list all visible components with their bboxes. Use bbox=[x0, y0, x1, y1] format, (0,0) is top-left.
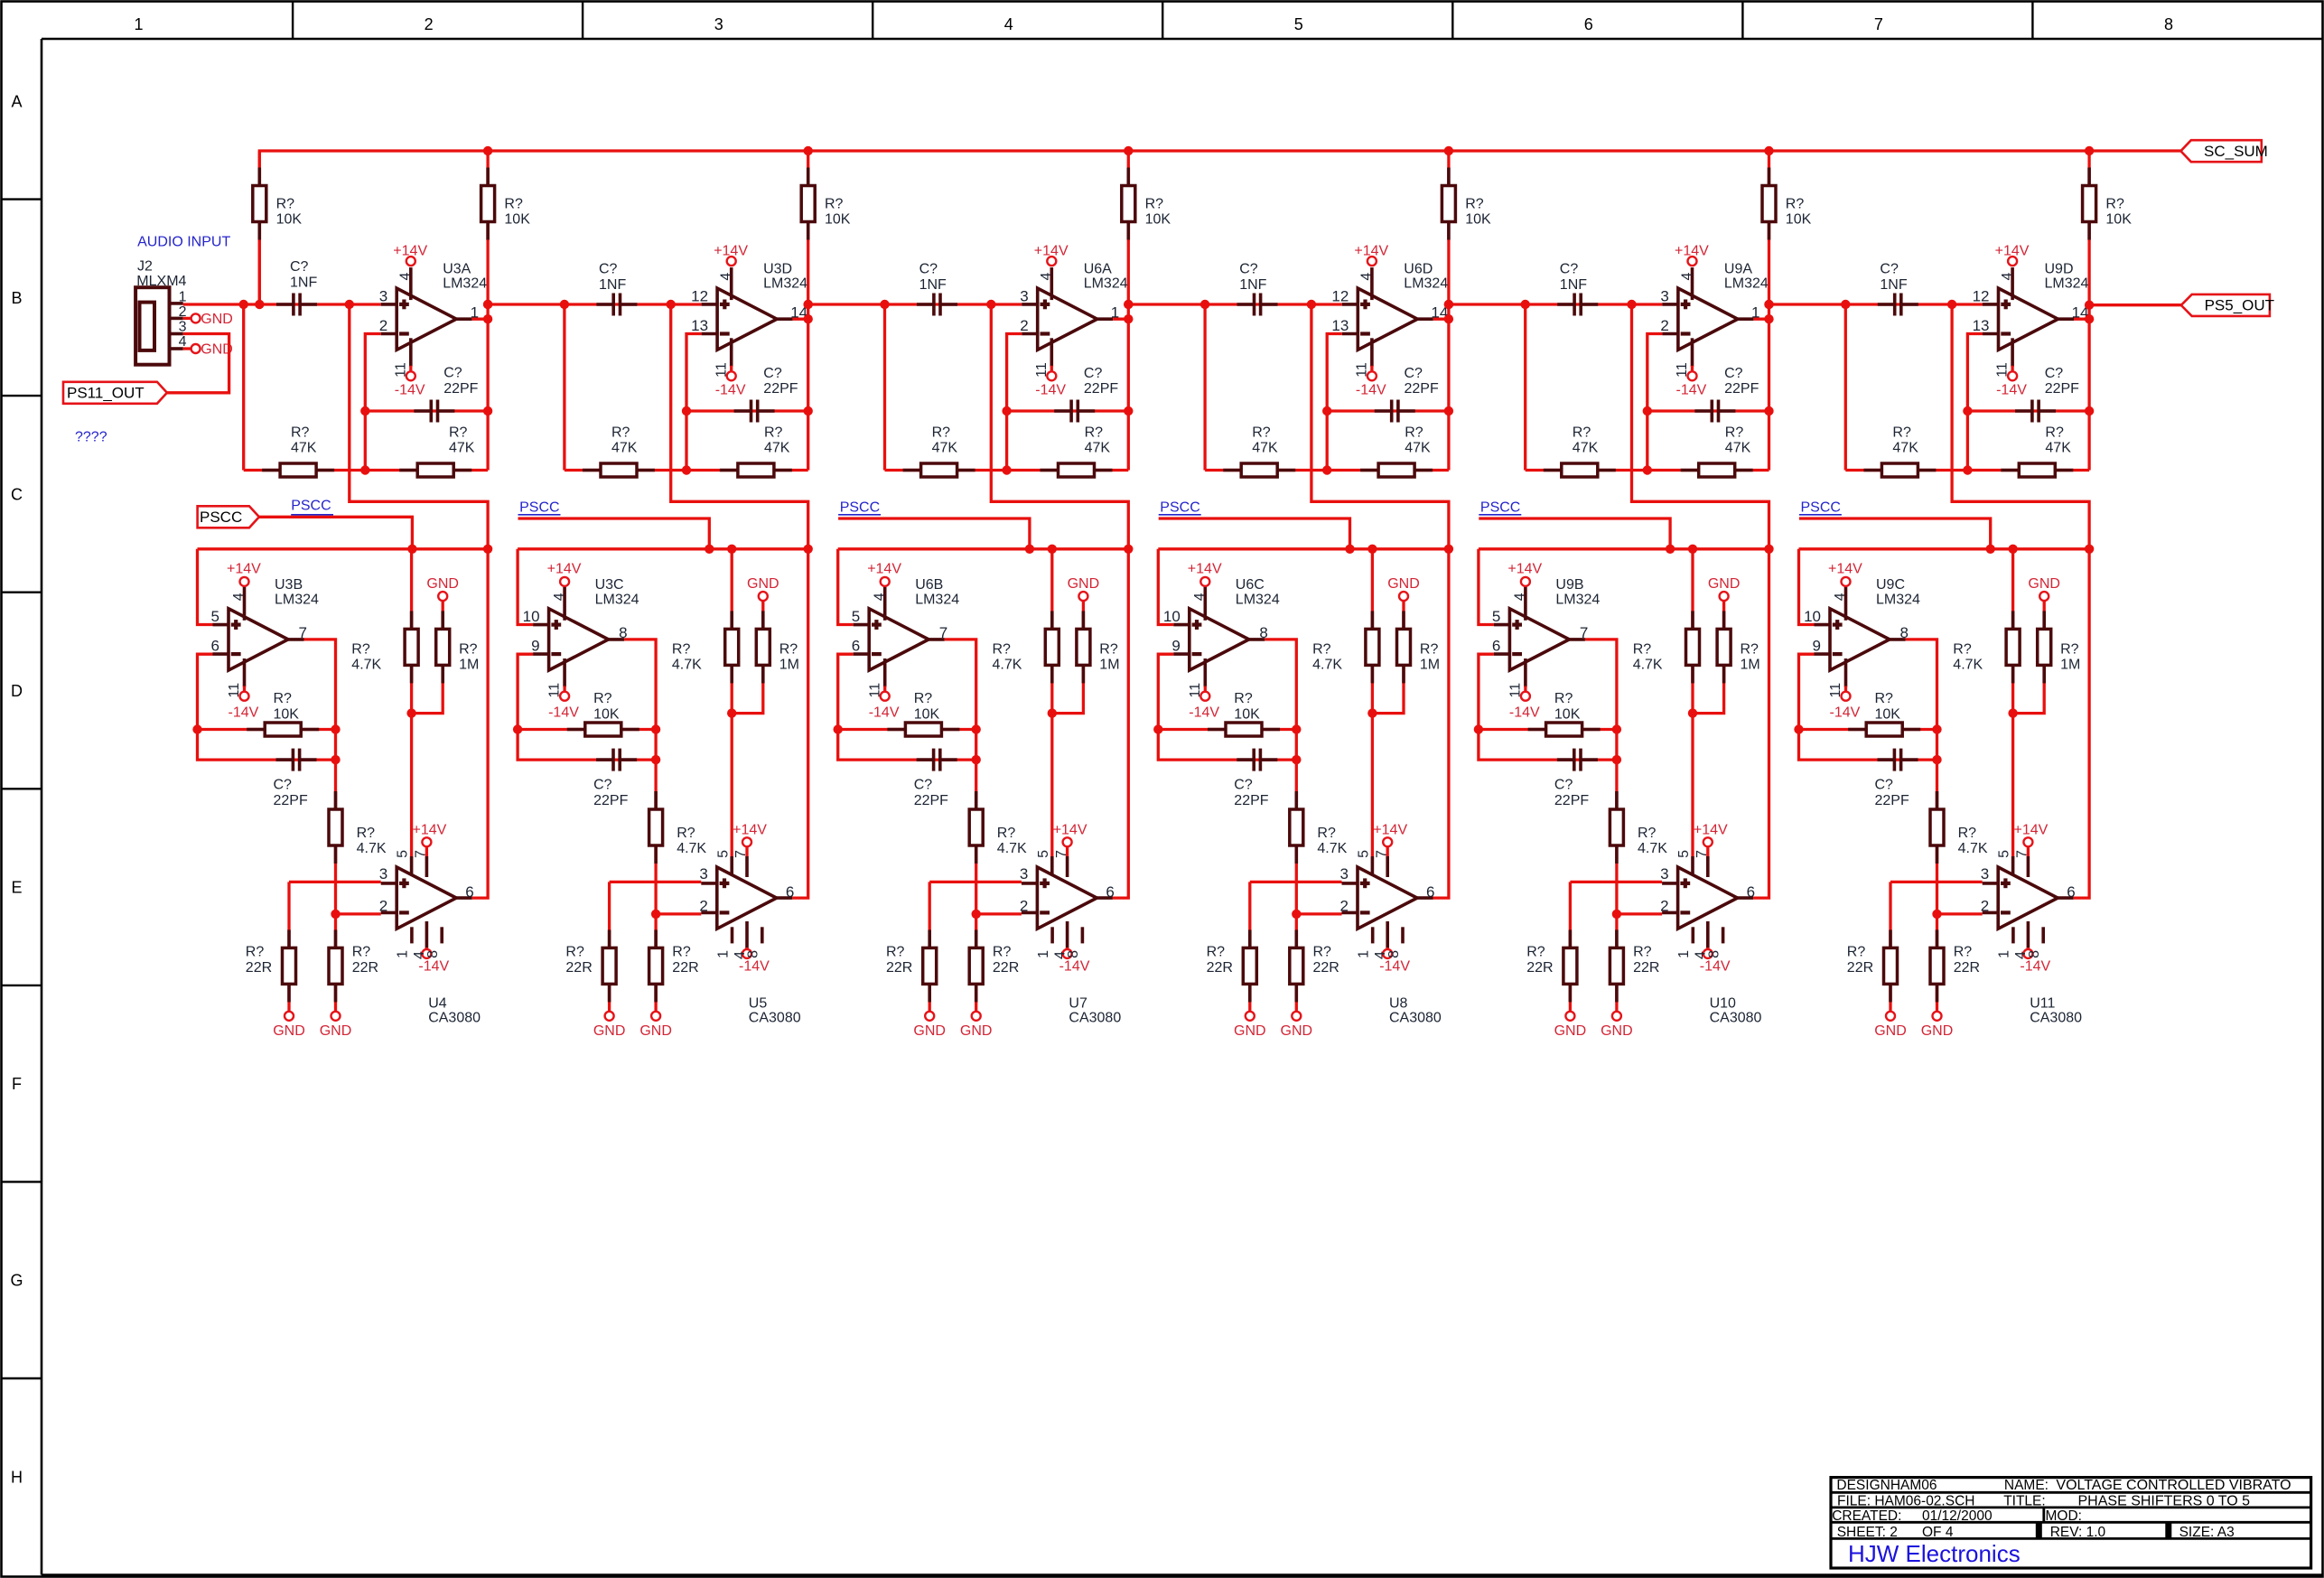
svg-text:C?: C? bbox=[1880, 262, 1899, 277]
junction next input row at column stage 6 bbox=[2085, 301, 2094, 310]
junction 22PF row right stage 3 bbox=[972, 755, 981, 764]
svg-text:R?: R? bbox=[1573, 425, 1591, 440]
svg-text:R?: R? bbox=[932, 425, 951, 440]
svg-text:22PF: 22PF bbox=[1875, 793, 1909, 808]
resistor R? 10K feedback stage 4 bbox=[1208, 691, 1280, 736]
resistor R? 4.7K (signal divider) stage 1 bbox=[329, 791, 387, 864]
wire bias link (input row down to bottom section) stage 4 bbox=[1311, 304, 1449, 549]
junction 10K row right stage 5 bbox=[1612, 724, 1621, 733]
svg-text:R?: R? bbox=[779, 641, 798, 657]
resistor R? 47K (left) stage 6 bbox=[1863, 425, 1936, 477]
wire OTA + input branch stage 5 bbox=[1570, 881, 1662, 883]
power pin 11 -14V of U3C bbox=[547, 658, 580, 720]
wire output net stage 6 bbox=[2074, 318, 2089, 321]
svg-text:PS11_OUT: PS11_OUT bbox=[67, 385, 145, 402]
svg-text:R?: R? bbox=[997, 826, 1016, 841]
svg-text:DESIGNHAM06: DESIGNHAM06 bbox=[1836, 1478, 1937, 1493]
svg-text:R?: R? bbox=[672, 945, 691, 960]
op-amp U9A LM324 bbox=[1662, 261, 1769, 350]
wire column net 4 vertical bbox=[1127, 151, 1130, 471]
svg-text:-14V: -14V bbox=[739, 959, 770, 975]
junction 10K row right stage 2 bbox=[651, 724, 660, 733]
svg-text:11: 11 bbox=[1675, 362, 1690, 378]
svg-text:-14V: -14V bbox=[869, 705, 900, 720]
wire feedback (- input) stage 5 bbox=[1647, 334, 1663, 471]
wire input row net stage 1 bbox=[183, 303, 381, 305]
junction 22PF row at feedback vertical stage 1 bbox=[360, 406, 369, 416]
svg-text:10: 10 bbox=[1163, 608, 1181, 625]
pin 8 of U10 (nc) bbox=[1706, 927, 1722, 958]
svg-text:NAME:: NAME: bbox=[2004, 1478, 2049, 1493]
pin 5 of U10 (bias input from 4.7K/1M node) bbox=[1676, 850, 1693, 875]
svg-text:01/12/2000: 01/12/2000 bbox=[1922, 1508, 1993, 1524]
wire left 47K branch vertical stage 5 bbox=[1524, 304, 1526, 471]
wire feedback (- input) stage 3 bbox=[1007, 334, 1022, 471]
svg-text:U6C: U6C bbox=[1236, 577, 1265, 593]
svg-text:4.7K: 4.7K bbox=[357, 841, 387, 856]
svg-text:OF 4: OF 4 bbox=[1922, 1525, 1954, 1540]
junction input row at column stage 6 bbox=[1764, 300, 1773, 309]
op-amp U6D LM324 bbox=[1342, 261, 1449, 350]
junction next input row at column stage 5 bbox=[1764, 300, 1773, 309]
junction bias horizontal at column stage 3 bbox=[1124, 545, 1133, 554]
svg-text:U7: U7 bbox=[1069, 995, 1087, 1011]
junction bias horizontal / PSCC stage 1 bbox=[407, 545, 416, 554]
svg-text:11: 11 bbox=[547, 683, 563, 698]
power GND (left 22R) stage 1 bbox=[273, 1012, 305, 1039]
resistor R? 47K (left) stage 2 bbox=[583, 425, 655, 477]
svg-text:+14V: +14V bbox=[1053, 823, 1087, 838]
svg-text:4: 4 bbox=[1833, 593, 1848, 601]
junction on SC_SUM bus bbox=[1764, 146, 1773, 155]
svg-text:8: 8 bbox=[1066, 950, 1081, 958]
wire 47K feedback row stage 2 bbox=[565, 469, 808, 472]
svg-text:5: 5 bbox=[1294, 15, 1303, 33]
junction 47K row at feedback vertical stage 3 bbox=[1002, 465, 1011, 474]
svg-text:22PF: 22PF bbox=[593, 793, 628, 808]
junction 10K row left stage 2 bbox=[513, 724, 522, 733]
svg-text:C?: C? bbox=[1560, 262, 1579, 277]
svg-text:VOLTAGE CONTROLLED VIBRATO: VOLTAGE CONTROLLED VIBRATO bbox=[2056, 1478, 2291, 1493]
svg-text:CA3080: CA3080 bbox=[428, 1011, 481, 1026]
svg-text:11: 11 bbox=[1508, 683, 1524, 698]
junction 4.7K/1M bias node stage 3 bbox=[1048, 708, 1057, 717]
svg-text:PSCC: PSCC bbox=[291, 499, 331, 514]
power GND (right 22R) stage 6 bbox=[1921, 1012, 1954, 1039]
svg-text:3: 3 bbox=[1660, 288, 1668, 305]
svg-text:H: H bbox=[11, 1468, 23, 1486]
power pin 11 -14V of U9B bbox=[1508, 658, 1541, 720]
wire 22PF feedback row stage 4 bbox=[1327, 409, 1449, 412]
junction OTA - input node stage 5 bbox=[1612, 910, 1621, 919]
svg-text:47K: 47K bbox=[1252, 441, 1278, 456]
svg-text:R?: R? bbox=[672, 641, 691, 657]
resistor R? 10K feedback stage 1 bbox=[247, 691, 319, 736]
wire output net stage 5 bbox=[1753, 318, 1769, 321]
wire - input feedback branch stage 2 bbox=[518, 654, 656, 760]
junction output at next column stage 4 bbox=[1444, 314, 1453, 323]
resistor R? 10K feedback stage 6 bbox=[1848, 691, 1920, 736]
svg-text:-14V: -14V bbox=[715, 382, 746, 397]
power pin 11 -14V of U3B bbox=[227, 658, 259, 720]
junction OTA - input node stage 4 bbox=[1292, 910, 1301, 919]
op-amp U6A LM324 bbox=[1022, 261, 1128, 350]
resistor R? 22R (left) stage 6 bbox=[1847, 929, 1898, 1002]
svg-text:5: 5 bbox=[852, 608, 860, 625]
svg-text:7: 7 bbox=[299, 624, 307, 641]
pin 7 of U10 +14V bbox=[1694, 823, 1728, 877]
svg-text:9: 9 bbox=[531, 638, 539, 655]
svg-text:R?: R? bbox=[357, 826, 376, 841]
svg-text:R?: R? bbox=[1554, 691, 1573, 706]
svg-text:1: 1 bbox=[179, 290, 187, 305]
svg-text:22PF: 22PF bbox=[2045, 381, 2079, 397]
wire 22PF feedback row stage 2 bbox=[686, 409, 808, 412]
title block bbox=[1831, 1478, 2311, 1568]
svg-text:22R: 22R bbox=[1633, 960, 1659, 976]
svg-text:R?: R? bbox=[1145, 196, 1164, 211]
svg-text:47K: 47K bbox=[449, 441, 475, 456]
resistor R? 4.7K (signal divider) stage 4 bbox=[1290, 791, 1348, 864]
svg-text:R?: R? bbox=[449, 425, 468, 440]
svg-text:R?: R? bbox=[459, 641, 478, 657]
pin 7 of U11 +14V bbox=[2014, 823, 2049, 877]
wire 22PF feedback row stage 1 bbox=[365, 409, 488, 412]
svg-text:4: 4 bbox=[2000, 273, 2015, 281]
power pin 4 +14V of U6C bbox=[1188, 561, 1222, 621]
op-amp U9C LM324 bbox=[1815, 577, 1921, 670]
svg-text:GND: GND bbox=[1234, 1023, 1266, 1039]
wire 47K feedback row stage 5 bbox=[1526, 469, 1769, 472]
svg-text:10K: 10K bbox=[1145, 212, 1171, 228]
junction 10K row left stage 5 bbox=[1474, 724, 1483, 733]
resistor R? 4.7K (signal divider) stage 2 bbox=[649, 791, 707, 864]
svg-text:3: 3 bbox=[1340, 865, 1349, 882]
svg-text:U9A: U9A bbox=[1724, 261, 1752, 276]
power GND (top of 1M) stage 6 bbox=[2028, 576, 2060, 601]
svg-text:5: 5 bbox=[1997, 850, 2012, 858]
svg-text:+14V: +14V bbox=[1354, 243, 1388, 258]
svg-text:3: 3 bbox=[1981, 865, 1989, 882]
wire 10K feedback row stage 1 bbox=[198, 728, 336, 731]
junction next input row at column stage 1 bbox=[483, 300, 492, 309]
junction 22PF row at column stage 1 bbox=[483, 406, 492, 416]
svg-text:1: 1 bbox=[1997, 950, 2012, 958]
svg-text:R?: R? bbox=[565, 945, 584, 960]
svg-text:+14V: +14V bbox=[547, 561, 582, 576]
svg-text:R?: R? bbox=[1633, 945, 1652, 960]
wire 47K feedback row stage 4 bbox=[1205, 469, 1449, 472]
svg-text:C?: C? bbox=[1875, 778, 1894, 793]
svg-text:CA3080: CA3080 bbox=[1710, 1011, 1762, 1026]
power pin 11 -14V of U3D bbox=[714, 338, 746, 397]
power pin 4 +14V of U9D bbox=[1995, 243, 2030, 300]
junction on SC_SUM bus bbox=[483, 146, 492, 155]
junction OTA - input node stage 6 bbox=[1932, 910, 1941, 919]
resistor R? 47K (right) stage 3 bbox=[1041, 425, 1113, 477]
svg-text:4: 4 bbox=[719, 273, 734, 281]
resistor R? 10K feedback stage 5 bbox=[1528, 691, 1601, 736]
wire 10K feedback row stage 3 bbox=[838, 728, 976, 731]
svg-text:2: 2 bbox=[379, 897, 387, 914]
wire 10K feedback row stage 6 bbox=[1799, 728, 1937, 731]
svg-text:22R: 22R bbox=[1847, 960, 1873, 976]
svg-text:4: 4 bbox=[1039, 273, 1054, 281]
svg-text:R?: R? bbox=[1405, 425, 1423, 440]
svg-text:R?: R? bbox=[1526, 945, 1545, 960]
svg-text:8: 8 bbox=[1259, 624, 1267, 641]
junction next input row at column stage 2 bbox=[804, 300, 813, 309]
svg-text:-14V: -14V bbox=[1059, 959, 1090, 975]
capacitor C? 22PF feedback stage 5 bbox=[1554, 749, 1598, 808]
junction input row / 47K branch stage 2 bbox=[560, 300, 569, 309]
junction bias horizontal / PSCC stage 4 bbox=[1345, 545, 1354, 554]
junction 22PF row right stage 4 bbox=[1292, 755, 1301, 764]
junction bias horizontal at column stage 4 bbox=[1444, 545, 1453, 554]
wire left 47K branch vertical stage 4 bbox=[1203, 304, 1206, 471]
svg-text:22PF: 22PF bbox=[274, 793, 308, 808]
svg-text:GND: GND bbox=[320, 1023, 352, 1039]
wire output to OTA chain stage 3 bbox=[945, 640, 976, 1013]
svg-text:10K: 10K bbox=[593, 707, 620, 723]
svg-text:3: 3 bbox=[1660, 865, 1668, 882]
svg-text:R?: R? bbox=[1725, 425, 1744, 440]
wire OTA + input branch stage 2 bbox=[610, 881, 702, 883]
svg-text:U8: U8 bbox=[1389, 995, 1408, 1011]
op-amp U3D LM324 bbox=[702, 261, 808, 350]
svg-text:47K: 47K bbox=[932, 441, 958, 456]
svg-text:47K: 47K bbox=[764, 441, 790, 456]
wire column net 5 vertical bbox=[1447, 151, 1450, 471]
svg-text:C?: C? bbox=[1239, 262, 1258, 277]
svg-text:-14V: -14V bbox=[395, 382, 425, 397]
svg-text:R?: R? bbox=[1953, 641, 1972, 657]
svg-text:U9B: U9B bbox=[1555, 577, 1583, 593]
svg-text:22R: 22R bbox=[246, 960, 272, 976]
capacitor C? 22PF feedback stage 3 bbox=[914, 749, 957, 808]
svg-text:11: 11 bbox=[1995, 362, 2011, 378]
svg-text:R?: R? bbox=[1465, 196, 1484, 211]
junction input row / bias link stage 3 bbox=[986, 300, 995, 309]
capacitor C? 1NF stage 1 bbox=[276, 259, 317, 316]
junction output at next column stage 1 bbox=[483, 314, 492, 323]
power GND (left 22R) stage 3 bbox=[913, 1012, 946, 1039]
wire OTA + input branch stage 6 bbox=[1890, 881, 1983, 883]
resistor R? 1M (bias to GND) stage 5 bbox=[1693, 601, 1760, 714]
svg-text:6: 6 bbox=[1492, 638, 1500, 655]
svg-text:1: 1 bbox=[1036, 950, 1051, 958]
resistor R? 22R (right) stage 6 bbox=[1930, 929, 1980, 1002]
resistor R? 10K feedback stage 3 bbox=[887, 691, 959, 736]
wire 47K feedback row stage 6 bbox=[1845, 469, 2089, 472]
svg-text:U6A: U6A bbox=[1084, 261, 1112, 276]
svg-text:10K: 10K bbox=[1786, 212, 1812, 228]
wire PSCC net stage 4 bbox=[1159, 518, 1350, 549]
svg-text:CA3080: CA3080 bbox=[2030, 1011, 2082, 1026]
pin 5 of U5 (bias input from 4.7K/1M node) bbox=[715, 850, 732, 875]
wire bottom bias horizontal stage 3 bbox=[838, 547, 1129, 550]
svg-text:7: 7 bbox=[414, 850, 429, 858]
svg-text:2: 2 bbox=[379, 317, 387, 334]
wire left 47K branch vertical stage 2 bbox=[563, 304, 565, 471]
junction input row / 47K branch stage 3 bbox=[880, 300, 889, 309]
svg-text:+14V: +14V bbox=[413, 823, 447, 838]
wire input row net stage 3 bbox=[808, 303, 1022, 305]
svg-text:12: 12 bbox=[691, 288, 708, 305]
svg-text:GND: GND bbox=[747, 576, 779, 592]
resistor R? 47K (left) stage 5 bbox=[1544, 425, 1616, 477]
svg-text:PSCC: PSCC bbox=[1801, 500, 1841, 516]
wire J2 pin3 to PS11_OUT bbox=[167, 334, 229, 393]
wire column net 3 vertical bbox=[807, 151, 809, 471]
wire 47K feedback row stage 1 bbox=[244, 469, 488, 472]
pin 5 of U4 (bias input from 4.7K/1M node) bbox=[396, 850, 412, 875]
connector J2 MLXM4 bbox=[135, 259, 186, 365]
svg-text:10K: 10K bbox=[825, 212, 851, 228]
wire 22PF feedback row stage 3 bbox=[1007, 409, 1129, 412]
svg-text:PS5_OUT: PS5_OUT bbox=[2205, 297, 2274, 314]
svg-text:+14V: +14V bbox=[1675, 243, 1709, 258]
wire PS5_OUT net bbox=[2089, 303, 2181, 306]
svg-text:C?: C? bbox=[599, 262, 618, 277]
svg-text:1NF: 1NF bbox=[1560, 277, 1587, 293]
svg-text:22R: 22R bbox=[565, 960, 592, 976]
svg-text:2: 2 bbox=[1660, 317, 1668, 334]
svg-text:1M: 1M bbox=[1741, 658, 1760, 673]
wire OTA - input row stage 2 bbox=[656, 912, 701, 915]
junction input row at column stage 4 bbox=[1124, 300, 1133, 309]
svg-text:1NF: 1NF bbox=[919, 277, 947, 293]
pin 4 of U5 -14V bbox=[733, 921, 770, 975]
svg-text:GND: GND bbox=[593, 1023, 626, 1039]
svg-text:+14V: +14V bbox=[1995, 243, 2030, 258]
wire PSCC net stage 3 bbox=[838, 518, 1030, 549]
svg-text:-14V: -14V bbox=[1379, 959, 1410, 975]
pin 7 of U8 +14V bbox=[1373, 823, 1407, 877]
junction 10K row left stage 3 bbox=[834, 724, 843, 733]
wire left 47K branch vertical stage 3 bbox=[883, 304, 886, 471]
pin 4 of U10 -14V bbox=[1694, 921, 1731, 975]
svg-text:C?: C? bbox=[1234, 778, 1253, 793]
resistor R? 22R (right) stage 3 bbox=[969, 929, 1019, 1002]
svg-text:R?: R? bbox=[1958, 826, 1977, 841]
svg-text:-14V: -14V bbox=[548, 705, 579, 720]
svg-text:C?: C? bbox=[1554, 778, 1573, 793]
junction 22PF row at column stage 5 bbox=[1764, 406, 1773, 416]
junction 4.7K/1M bias node stage 6 bbox=[2008, 708, 2017, 717]
svg-text:11: 11 bbox=[1828, 683, 1843, 698]
op-amp U6B LM324 bbox=[854, 577, 960, 670]
power GND (left 22R) stage 6 bbox=[1874, 1012, 1907, 1039]
pin 8 of U4 (nc) bbox=[425, 927, 442, 958]
pin 1 of U4 (nc) bbox=[396, 927, 412, 958]
svg-text:10K: 10K bbox=[1875, 707, 1901, 723]
svg-text:PSCC: PSCC bbox=[1160, 500, 1199, 516]
row reference strip (left) bbox=[2, 92, 42, 1486]
resistor R? 1M (bias to GND) stage 4 bbox=[1372, 601, 1440, 714]
svg-text:22R: 22R bbox=[1954, 960, 1980, 976]
svg-text:GND: GND bbox=[1554, 1023, 1587, 1039]
resistor R? 47K (right) stage 4 bbox=[1360, 425, 1433, 477]
pin 4 of U11 -14V bbox=[2013, 921, 2050, 975]
power pin 4 +14V of U3A bbox=[393, 243, 427, 300]
power GND (top of 1M) stage 1 bbox=[426, 576, 459, 601]
resistor R? 22R (left) stage 2 bbox=[565, 929, 616, 1002]
svg-text:7: 7 bbox=[1874, 15, 1883, 33]
svg-text:GND: GND bbox=[201, 312, 233, 327]
svg-text:6: 6 bbox=[1584, 15, 1593, 33]
svg-text:4.7K: 4.7K bbox=[1317, 841, 1347, 856]
power GND (top of 1M) stage 3 bbox=[1068, 576, 1100, 601]
svg-text:4: 4 bbox=[552, 593, 567, 601]
svg-text:GND: GND bbox=[1387, 576, 1420, 592]
svg-text:10: 10 bbox=[1804, 608, 1821, 625]
power pin 4 +14V of U3B bbox=[227, 561, 261, 621]
svg-text:13: 13 bbox=[691, 317, 708, 334]
resistor R? 4.7K (signal divider) stage 3 bbox=[969, 791, 1027, 864]
resistor R? 10K (column 5) bbox=[1442, 168, 1491, 240]
capacitor C? 22PF feedback stage 1 bbox=[274, 749, 317, 808]
wire + input branch stage 1 bbox=[198, 549, 213, 625]
pin 7 of U4 +14V bbox=[413, 823, 447, 877]
svg-text:CA3080: CA3080 bbox=[1069, 1011, 1121, 1026]
svg-text:SHEET: 2: SHEET: 2 bbox=[1837, 1525, 1898, 1540]
wire OTA output stage 2 bbox=[792, 549, 807, 898]
svg-text:R?: R? bbox=[1420, 641, 1439, 657]
svg-text:5: 5 bbox=[396, 850, 411, 858]
junction 10K row left stage 4 bbox=[1153, 724, 1162, 733]
svg-text:C?: C? bbox=[593, 778, 612, 793]
junction 22PF row right stage 6 bbox=[1932, 755, 1941, 764]
capacitor C? 22PF stage 1 bbox=[414, 366, 478, 423]
svg-text:MOD:: MOD: bbox=[2046, 1508, 2082, 1524]
wire OTA output stage 3 bbox=[1113, 549, 1128, 898]
net label PSCC (blue) stage 1 bbox=[291, 499, 333, 515]
svg-text:5: 5 bbox=[1036, 850, 1051, 858]
svg-text:LM324: LM324 bbox=[1876, 592, 1920, 607]
junction 10K row left stage 6 bbox=[1794, 724, 1803, 733]
power pin 11 -14V of U3A bbox=[393, 338, 425, 397]
wire output net stage 2 bbox=[793, 318, 808, 321]
wire OTA output stage 1 bbox=[472, 549, 488, 898]
power GND (left 22R) stage 4 bbox=[1234, 1012, 1266, 1039]
svg-text:HJW Electronics: HJW Electronics bbox=[1848, 1540, 2021, 1567]
svg-text:LM324: LM324 bbox=[763, 275, 807, 291]
svg-text:47K: 47K bbox=[1725, 441, 1751, 456]
wire left 47K branch vertical stage 1 bbox=[242, 304, 245, 471]
wire 10K feedback row stage 2 bbox=[518, 728, 656, 731]
svg-text:1M: 1M bbox=[779, 658, 799, 673]
svg-text:11: 11 bbox=[393, 362, 408, 378]
svg-text:LM324: LM324 bbox=[443, 275, 487, 291]
junction next input row at column stage 4 bbox=[1444, 300, 1453, 309]
svg-text:-14V: -14V bbox=[1700, 959, 1731, 975]
svg-text:GND: GND bbox=[273, 1023, 305, 1039]
wire bias link (input row down to bottom section) stage 3 bbox=[991, 304, 1128, 549]
wire + input branch stage 5 bbox=[1479, 549, 1494, 625]
power pin 4 +14V of U3C bbox=[547, 561, 582, 621]
svg-text:GND: GND bbox=[639, 1023, 672, 1039]
svg-text:-14V: -14V bbox=[1035, 382, 1066, 397]
op-amp U9D LM324 bbox=[1983, 261, 2089, 350]
svg-text:-14V: -14V bbox=[1356, 382, 1386, 397]
pin 8 of U5 (nc) bbox=[746, 927, 762, 958]
resistor R? 1M (bias to GND) stage 6 bbox=[2013, 601, 2081, 714]
junction input row at column stage 3 bbox=[804, 300, 813, 309]
svg-text:47K: 47K bbox=[1405, 441, 1431, 456]
svg-text:C?: C? bbox=[290, 259, 309, 275]
wire column net 1 vertical bbox=[258, 151, 261, 304]
